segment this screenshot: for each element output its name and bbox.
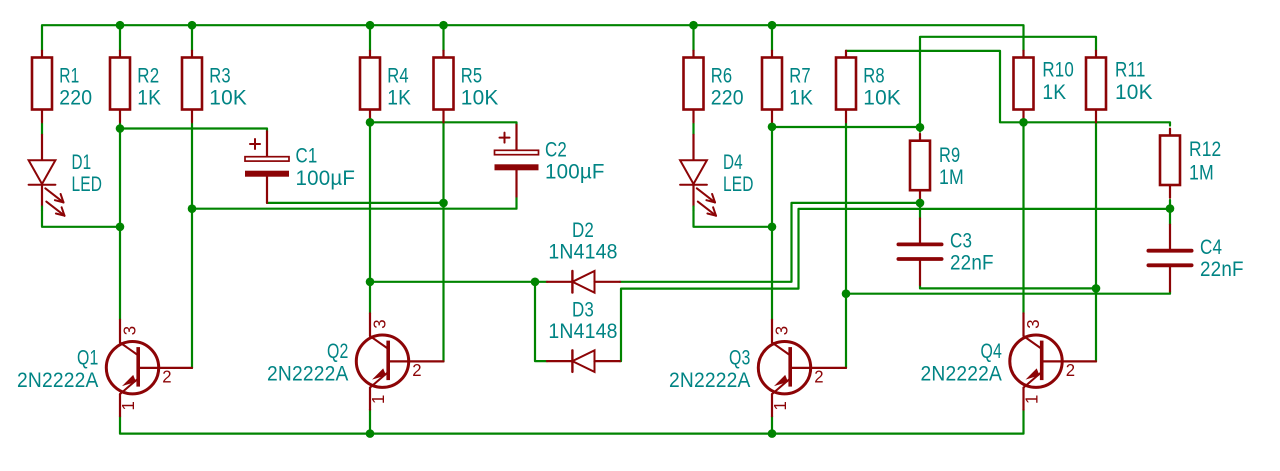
svg-text:D1: D1 [72,151,92,174]
transistor Q2 [267,313,444,409]
svg-text:2: 2 [814,367,824,387]
junction R9 top [916,123,925,132]
resistor R11 [1086,51,1153,123]
wire R4 bottom to C2 plus [370,122,517,125]
junction VCC-R4 [366,21,375,30]
svg-text:1K: 1K [1042,81,1066,104]
svg-text:R7: R7 [789,65,811,88]
svg-text:R6: R6 [711,65,733,88]
svg-text:2: 2 [162,367,172,387]
svg-text:22nF: 22nF [950,252,994,275]
svg-text:Q3: Q3 [729,347,751,370]
svg-text:R12: R12 [1189,138,1221,161]
wire Q2 collector [369,122,371,313]
wire D3 anode to R12 bottom [620,209,1170,361]
svg-text:1: 1 [770,401,790,411]
svg-text:2: 2 [412,360,422,380]
junction R12-C4 [1166,204,1175,213]
junction R4-C2 [366,118,375,127]
wire Q2 collector to D2 D3 cathodes [370,281,547,283]
wire R2 bottom to C1 plus [120,129,267,132]
LED D1 [29,135,103,216]
wire Q2 emitter stub [369,410,371,434]
junction R2-C1 [116,124,125,133]
junction VCC-R5 [439,21,448,30]
junction VCC-R3 [188,21,197,30]
svg-text:2N2222A: 2N2222A [17,369,99,392]
svg-text:D3: D3 [572,298,594,321]
wire R7 bottom to R9 top [772,126,920,128]
svg-text:1N4148: 1N4148 [548,241,617,264]
svg-text:10K: 10K [461,87,499,110]
junction R10-R12 [1019,118,1028,127]
svg-text:2N2222A: 2N2222A [267,363,349,386]
svg-text:R8: R8 [863,65,885,88]
svg-text:3: 3 [369,319,389,329]
resistor R2 [110,51,161,123]
junction Q2 collector-D2 [366,278,375,287]
wire R3 bottom to Q1 base [191,123,193,368]
wire Q4 collector [1022,122,1024,313]
wire R5 top to rail [442,25,444,51]
capacitor C4 [1148,225,1243,292]
svg-text:3: 3 [119,326,139,336]
svg-text:3: 3 [771,326,791,336]
wire C1 minus to node B2 [267,202,444,204]
svg-text:D2: D2 [572,219,594,242]
wire R7 top to rail [771,25,773,51]
svg-text:R5: R5 [461,65,483,88]
svg-text:R4: R4 [387,65,409,88]
junction R11-Q4 base [1092,284,1101,293]
svg-text:D4: D4 [723,151,743,174]
svg-text:Q2: Q2 [327,340,349,363]
svg-text:1K: 1K [789,87,813,110]
resistor R10 [1014,51,1074,123]
svg-text:1M: 1M [1189,162,1214,185]
svg-text:2: 2 [1066,360,1076,380]
wire R3 top to rail [191,25,193,51]
wire R5 bottom to Q2 base [442,123,444,361]
transistor Q1 [17,320,192,416]
junction Q2 emitter [366,429,375,438]
wire R12 bottom stub [1169,200,1171,225]
svg-text:1K: 1K [137,87,161,110]
junction D4-Q3 collector [768,223,777,232]
capacitor C3 [898,218,993,285]
junction D1-Q1 collector [116,223,125,232]
svg-text:220: 220 [59,87,92,110]
junction R9-C3 [916,199,925,208]
svg-text:R3: R3 [209,65,231,88]
wire R1 bottom to D1 [41,123,43,135]
wire GND bottom rail [120,410,1024,434]
transistor Q3 [669,320,846,416]
svg-text:2N2222A: 2N2222A [921,363,1003,386]
svg-text:22nF: 22nF [1200,258,1244,281]
wire D2 anode to R9 bottom [620,203,920,282]
svg-text:220: 220 [711,87,744,110]
svg-text:Q4: Q4 [981,340,1003,363]
capacitor C1 [245,131,355,203]
svg-text:100µF: 100µF [296,167,356,190]
wire R6 top to rail [692,25,694,51]
svg-text:C2: C2 [545,138,567,161]
wire Q3 emitter stub [771,416,773,434]
wire VCC top rail [42,25,1024,51]
junction Q3 emitter [768,429,777,438]
svg-text:R9: R9 [939,144,960,167]
wire R9 bottom stub [919,199,921,218]
svg-text:LED: LED [723,173,754,196]
resistor R8 [836,51,901,123]
svg-text:1N4148: 1N4148 [548,320,617,343]
svg-text:R2: R2 [137,65,159,88]
junction R7 bottom [768,123,777,132]
svg-text:1K: 1K [387,87,411,110]
svg-text:1: 1 [368,395,388,405]
svg-text:3: 3 [1023,319,1043,329]
wire R8 bottom to Q3 base [845,123,847,368]
svg-text:R11: R11 [1115,59,1146,82]
wire R2 bottom stub [119,123,121,129]
junction R8-Q3 base [842,289,851,298]
wire R11 top to R9 column [920,37,1096,132]
resistor R3 [182,51,247,123]
svg-text:R1: R1 [59,65,79,88]
wire R2 top to rail [119,25,121,51]
wire node B1 to C2 minus [192,197,517,209]
resistor R1 [32,51,92,123]
wire R4 top to rail [369,25,371,51]
wire C3 minus to Q4 base column [920,285,1096,288]
junction D2-D3 [531,278,540,287]
wire D4 cathode to Q3 collector [694,210,773,227]
wire D1 cathode to Q1 collector [42,210,120,227]
svg-text:R10: R10 [1042,59,1074,82]
resistor R9 [910,134,964,203]
svg-text:1M: 1M [939,166,964,189]
wire Q3 base node to C4 minus [846,291,1170,293]
svg-text:100µF: 100µF [545,161,605,184]
capacitor C2 [495,125,605,197]
resistor R12 [1160,129,1221,198]
wire R6 bottom to D4 [692,123,694,135]
wire Q1 collector [119,129,121,320]
junction VCC-R6 [689,21,698,30]
svg-text:C4: C4 [1200,236,1222,259]
junction C1-R5-Q2 base [439,199,448,208]
transistor Q4 [921,313,1097,409]
junction R3-Q1 base [188,204,197,213]
LED D4 [680,135,754,216]
resistor R7 [762,51,813,123]
junction VCC-R7 [768,21,777,30]
junction VCC-R2 [116,21,125,30]
svg-text:10K: 10K [863,87,901,110]
svg-text:10K: 10K [1115,81,1153,104]
diode D3 [547,298,620,372]
wire R11 bottom to Q4 base [1095,123,1097,361]
svg-text:C3: C3 [950,230,972,253]
resistor R6 [684,51,744,123]
svg-text:1: 1 [118,401,138,411]
svg-text:C1: C1 [296,145,318,168]
resistor R4 [360,51,411,123]
wire Q3 collector [771,123,773,320]
svg-text:1: 1 [1021,395,1041,405]
diode D2 [547,219,620,293]
svg-text:2N2222A: 2N2222A [669,369,751,392]
wire D2 cathode to D3 cathode [535,282,547,361]
resistor R5 [434,51,499,123]
wire R8 top to R10 bottom and R12 top [846,51,1170,126]
svg-text:LED: LED [72,173,103,196]
svg-text:10K: 10K [209,87,247,110]
svg-text:Q1: Q1 [77,347,99,370]
